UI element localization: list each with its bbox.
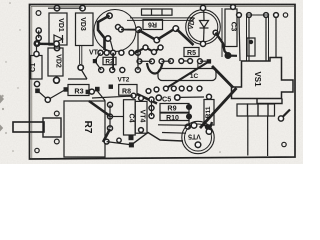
board left edge echo: [31, 6, 33, 158]
wire VD4 to C3 pad: [216, 33, 229, 55]
thyristor VS1 bottom tab: [257, 99, 282, 104]
node black square pad mid-left: [86, 90, 90, 94]
wire pad to square: [200, 60, 207, 62]
transistor VT4: [135, 101, 147, 133]
wire left column: [38, 31, 40, 39]
resistor R9: [160, 104, 189, 113]
resistor R11: [204, 100, 214, 126]
mounting hole top-left: [36, 11, 41, 16]
pad row mid 2: [146, 89, 151, 94]
transistor VT5: [182, 121, 214, 153]
component body at left edge: [43, 118, 61, 137]
resistor R2: [103, 57, 116, 64]
wire thick into column: [89, 101, 110, 116]
resistor R6: [143, 20, 163, 30]
wire thick to VT5: [210, 122, 213, 130]
resistor R7: [64, 101, 105, 157]
diode VD1: [49, 6, 67, 51]
rectifier VD4: [186, 10, 221, 45]
wire row segments y61: [140, 60, 153, 62]
pads column bottom middle: [108, 102, 113, 107]
mounting hole top-right: [283, 13, 287, 17]
wires vertical to bottom: [247, 116, 249, 156]
mounting hole bottom-left: [35, 148, 39, 152]
wire thick to VD2 pad: [38, 43, 53, 46]
connector tab left: [13, 122, 44, 132]
junction pad dark: [34, 40, 41, 47]
pad row mid right: [179, 59, 184, 64]
mounting hole mid-left lower: [54, 139, 59, 144]
wire bottom zigzag to VT5: [104, 139, 109, 144]
connector footprint top: [142, 9, 173, 15]
resistor R5: [184, 48, 199, 57]
node pad junction bottom-left: [45, 97, 50, 102]
diode VD2: [48, 41, 63, 83]
wire C5 to R11: [180, 96, 204, 98]
wire U loop: [147, 63, 163, 74]
thyristor VS1: [232, 58, 294, 99]
wire VT1 bottom pad to row: [111, 41, 114, 51]
wire VS1 legs: [239, 17, 240, 61]
wire R8 to C5: [137, 94, 157, 104]
wires to VT5: [158, 124, 191, 127]
transistor VT1: [94, 10, 136, 52]
jumper wire band: [130, 17, 193, 19]
wire top pads VD1-VD3: [48, 7, 83, 9]
pad upper: [89, 89, 94, 94]
resistor R8: [119, 85, 137, 96]
board top edge echo: [31, 5, 294, 7]
wire diagonal across 1C: [167, 62, 209, 88]
node black square pad left: [35, 89, 40, 94]
wire VT1 to pad: [121, 29, 139, 31]
component outline long mid: [158, 69, 216, 81]
diode VD3: [76, 6, 94, 71]
wire vertical left of C3: [221, 8, 223, 57]
node left column pads: [36, 28, 41, 33]
capacitor small right: [247, 38, 255, 56]
wires around R2: [95, 53, 101, 61]
pads right of R9/R10: [187, 105, 192, 110]
resistor R3: [68, 85, 105, 101]
capacitor C1: [31, 44, 43, 87]
pad row mid extension left: [137, 59, 142, 64]
wire diagonal to VS1 left tab: [212, 66, 233, 88]
component outline right legs: [247, 15, 269, 61]
pads row 2 middle: [99, 68, 104, 73]
wire to C4 top: [92, 96, 133, 98]
pad with lead right: [278, 116, 283, 121]
node black square pad left of R8: [109, 85, 113, 89]
wire zigzag cluster mid: [134, 48, 161, 54]
node black square pad R3: [64, 87, 69, 92]
wire V bottom-left: [39, 91, 64, 100]
wire thick left of VT1: [98, 16, 110, 51]
mounting hole bottom-right: [282, 142, 286, 146]
board outline: [30, 5, 296, 160]
footprint rects under VS1: [237, 104, 248, 116]
capacitor C4: [124, 100, 136, 135]
node black square pad mid right: [207, 59, 211, 63]
scan specks: [0, 95, 4, 132]
pads column left of R9: [149, 97, 154, 102]
node pad right of VT1: [136, 27, 142, 33]
wire zigzag middle top: [139, 30, 157, 40]
wire diagonal VS1 tab down-left: [200, 88, 237, 128]
mounting hole mid-left upper: [54, 111, 59, 116]
resistor R10: [160, 113, 189, 121]
capacitor C3: [225, 9, 237, 47]
pads row under VT1: [98, 50, 103, 55]
pads top right row: [237, 13, 242, 18]
node black square pad left middle: [93, 59, 97, 63]
wire above R3: [68, 78, 87, 80]
